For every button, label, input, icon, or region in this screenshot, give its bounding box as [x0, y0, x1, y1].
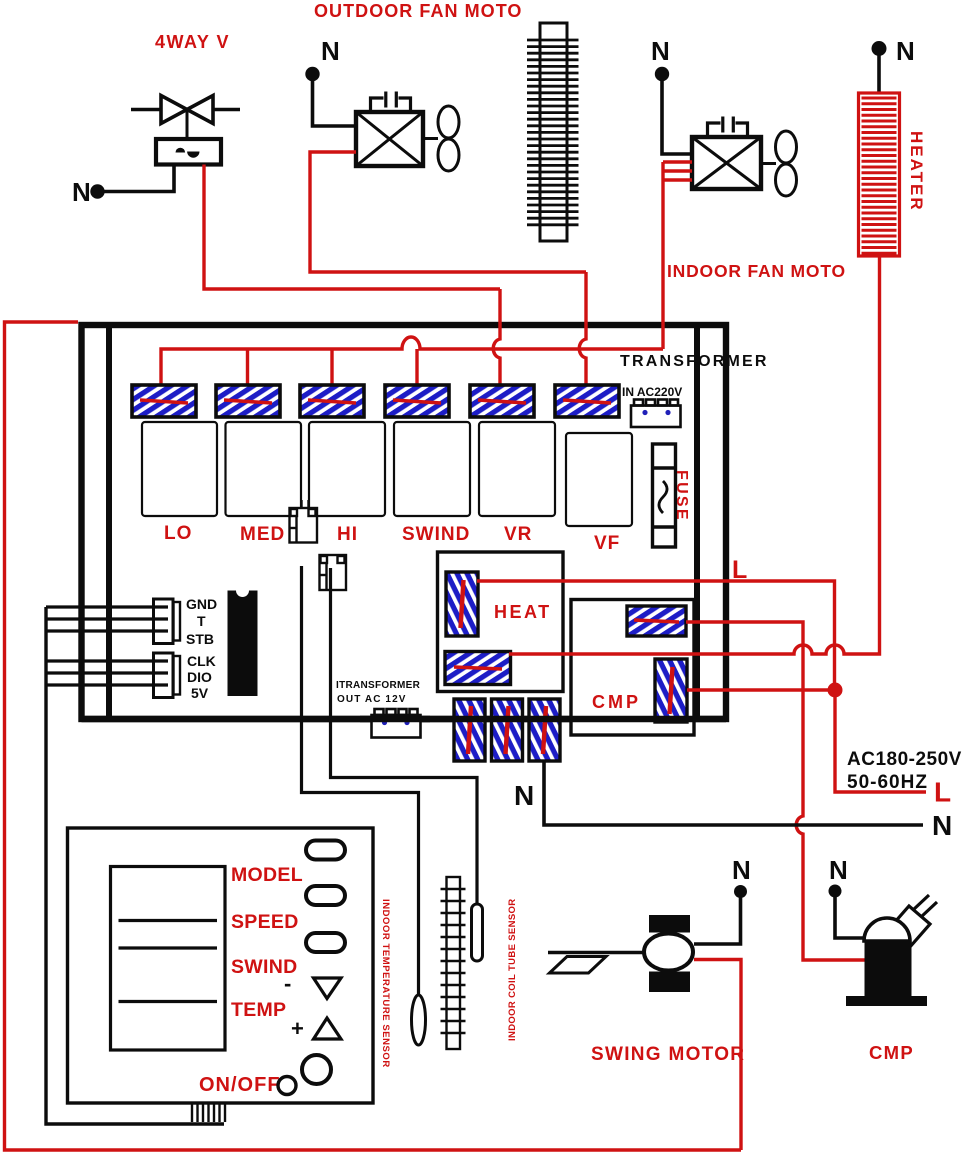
wire: bus down to remote — [46, 607, 224, 1124]
outdoor fan motor capacitor — [371, 92, 411, 113]
compressor CMP — [888, 906, 930, 948]
outdoor fan blades — [423, 137, 438, 140]
wire: heater red feed across board to heater — [509, 256, 880, 654]
indoor fan motor capacitor — [708, 117, 748, 138]
svg-text:AC180-250V: AC180-250V — [847, 749, 962, 770]
svg-text:MED: MED — [240, 524, 285, 545]
swing motor arm — [548, 951, 644, 954]
wire: 4-way valve red feed — [204, 165, 500, 290]
wire: main red supply loop (left + bottom) — [5, 322, 742, 1150]
button oval 1 — [306, 841, 345, 860]
connector CN1 — [132, 385, 196, 417]
wire: N to swing motor — [694, 897, 741, 944]
wire: 4-way feed down to CN5 with hop — [493, 289, 500, 385]
button small circle — [278, 1077, 296, 1095]
remote bottom connector comb — [192, 1103, 225, 1122]
display connector A (GND T STB) — [154, 599, 181, 644]
button oval 2 — [306, 886, 345, 905]
coil tube ladder — [441, 877, 466, 1049]
wire: room sensor lead — [302, 566, 419, 995]
wire: L junction down to L terminal — [835, 690, 926, 792]
wire: 4-way valve to N — [104, 165, 174, 192]
condenser comb — [527, 23, 579, 241]
IC chip U1 — [228, 591, 258, 697]
wire: N to heater — [877, 55, 881, 93]
svg-text:-: - — [284, 971, 291, 996]
svg-text:HEATER: HEATER — [907, 131, 926, 212]
svg-text:OUT AC 12V: OUT AC 12V — [337, 694, 407, 705]
control board inner side lines — [106, 328, 112, 716]
svg-text:4WAY V: 4WAY V — [155, 32, 230, 52]
svg-text:INDOOR TEMPERATURE SENSOR: INDOOR TEMPERATURE SENSOR — [380, 899, 391, 1068]
swing motor — [649, 915, 690, 933]
svg-text:SWIND: SWIND — [402, 524, 470, 545]
svg-text:ITRANSFORMER: ITRANSFORMER — [336, 680, 421, 691]
svg-text:OUTDOOR FAN MOTO: OUTDOOR FAN MOTO — [314, 1, 522, 21]
svg-text:N: N — [732, 855, 751, 885]
wire: drop to CN4 — [415, 349, 418, 385]
connector CN3 — [300, 385, 364, 417]
svg-text:N: N — [72, 177, 91, 207]
room sensor bulb — [412, 995, 426, 1045]
relay MED — [226, 422, 302, 516]
svg-text:TRANSFORMER: TRANSFORMER — [620, 353, 769, 370]
svg-text:DIO: DIO — [187, 669, 212, 685]
wire: outdoor feed down to CN6 with hop — [579, 272, 586, 385]
4-way valve coil mark — [176, 148, 186, 153]
svg-text:LO: LO — [164, 523, 192, 544]
svg-text:STB: STB — [186, 631, 214, 647]
board bottom edge overlay — [82, 716, 727, 722]
wire: coil sensor lead — [331, 568, 478, 906]
display connector B (CLK DIO 5V) — [154, 653, 181, 698]
svg-text:HEAT: HEAT — [494, 602, 552, 622]
CMP section box — [571, 600, 694, 736]
wire: indoor fan red down to board — [661, 162, 664, 349]
button oval 3 — [306, 933, 345, 952]
wire: outdoor fan red feed — [310, 152, 586, 272]
vertical connector V1 — [454, 699, 485, 761]
wire: drop to CN3 — [330, 349, 333, 385]
indoor fan blades — [761, 162, 776, 165]
svg-text:FUSE: FUSE — [673, 470, 690, 522]
svg-text:N: N — [514, 780, 534, 811]
node N (4-way valve) — [90, 184, 104, 198]
svg-text:ON/OFF: ON/OFF — [199, 1074, 281, 1096]
fuse — [653, 444, 676, 547]
button triangle down — [314, 978, 342, 999]
svg-text:50-60HZ: 50-60HZ — [847, 772, 928, 793]
4-way valve body — [131, 96, 240, 165]
wire: indoor fan red triple feed — [663, 162, 692, 180]
svg-text:TEMP: TEMP — [231, 999, 286, 1021]
small component K2 (transformer primary plug) — [320, 555, 347, 590]
connector CN2 — [216, 385, 280, 417]
HEAT vertical connector — [446, 572, 478, 636]
CMP horizontal connector — [627, 606, 686, 636]
CMP vertical connector — [655, 659, 687, 722]
control board outer border — [82, 325, 727, 719]
svg-text:5V: 5V — [191, 685, 209, 701]
svg-text:IN AC220V: IN AC220V — [622, 385, 682, 399]
relay VF — [566, 433, 632, 526]
node N (heater) — [872, 41, 887, 56]
wire: N to compressor — [835, 897, 866, 938]
remote display screen — [111, 867, 226, 1051]
svg-text:L: L — [934, 777, 951, 808]
remote display unit outer box — [68, 828, 374, 1103]
indoor fan motor — [692, 137, 761, 189]
button triangle up — [314, 1018, 342, 1039]
svg-text:L: L — [732, 556, 747, 584]
svg-text:+: + — [291, 1016, 304, 1041]
svg-text:SPEED: SPEED — [231, 911, 299, 933]
HEAT horizontal connector — [445, 652, 511, 685]
wire: red relay feed bus — [161, 337, 663, 385]
wire: swing motor red feed — [694, 960, 741, 1151]
wire: L line from HEAT connector — [477, 581, 835, 690]
svg-text:GND: GND — [186, 596, 217, 612]
relay VR — [479, 422, 555, 516]
svg-text:VR: VR — [504, 524, 532, 545]
relay SWIND — [394, 422, 470, 516]
svg-text:CLK: CLK — [187, 653, 216, 669]
svg-text:CMP: CMP — [869, 1042, 914, 1063]
outdoor fan motor — [356, 112, 423, 166]
svg-text:VF: VF — [594, 533, 620, 554]
svg-text:N: N — [321, 36, 340, 66]
connector CN4 — [385, 385, 449, 417]
connector CN6 — [555, 385, 619, 417]
heater element — [859, 93, 900, 256]
transformer input connector — [631, 400, 681, 428]
wire: N to outdoor fan motor — [313, 80, 357, 126]
svg-text:CMP: CMP — [592, 692, 641, 712]
svg-text:SWING MOTOR: SWING MOTOR — [591, 1044, 745, 1065]
wire: CMP relay feed down to compressor with hop over N bus — [686, 622, 866, 960]
svg-text:INDOOR FAN MOTO: INDOOR FAN MOTO — [667, 261, 846, 281]
wire: N bus from V3 to N terminal — [544, 761, 923, 825]
svg-text:N: N — [829, 855, 848, 885]
wire: drop to CN2 — [246, 349, 249, 385]
wire: N to indoor fan motor — [662, 80, 692, 154]
svg-text:N: N — [651, 36, 670, 66]
board bottom edge overlay 2 — [360, 716, 430, 722]
wire: CMP connector to L junction — [687, 688, 835, 691]
transformer output connector — [372, 709, 421, 738]
button circle — [302, 1055, 331, 1084]
svg-text:MODEL: MODEL — [231, 864, 303, 886]
HEAT section box — [438, 552, 564, 692]
wire: display bus 6 lines — [46, 607, 168, 685]
svg-text:N: N — [932, 810, 952, 841]
svg-text:HI: HI — [337, 524, 358, 545]
svg-text:INDOOR COIL TUBE SENSOR: INDOOR COIL TUBE SENSOR — [507, 899, 518, 1041]
small component K1 (between MED and HI) — [290, 500, 318, 543]
junction dot L — [828, 683, 843, 698]
svg-text:T: T — [197, 613, 206, 629]
relay HI — [309, 422, 385, 516]
relay LO — [142, 422, 217, 516]
vertical connector V3 — [529, 699, 560, 761]
vertical connector V2 — [492, 699, 523, 761]
coil sensor capsule — [472, 904, 483, 961]
svg-text:N: N — [896, 36, 915, 66]
connector CN5 — [470, 385, 534, 417]
